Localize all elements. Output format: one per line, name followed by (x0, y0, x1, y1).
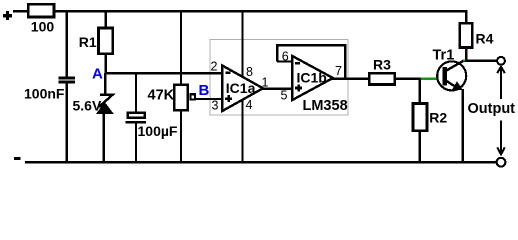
capacitor 100uF top plate (hollow) (128, 113, 145, 118)
wire R3 to junction (394, 77, 422, 79)
svg-text:47K: 47K (148, 88, 175, 104)
green wire junction to base (421, 77, 438, 79)
resistor R4 (box) (460, 23, 473, 47)
svg-text:100µF: 100µF (138, 123, 178, 139)
svg-text:Output: Output (468, 101, 516, 117)
wire + to 100 ohm resistor (13, 10, 28, 13)
resistor 100 (box) (28, 4, 54, 17)
resistor R1 (box) (99, 28, 113, 54)
zener diode anode triangle (97, 103, 113, 114)
bottom rail wire (25, 161, 497, 164)
resistor R2 bottom lead (419, 131, 421, 163)
wire IC1a output to pin 5 (262, 88, 292, 90)
svg-text:1: 1 (262, 75, 269, 89)
capacitor 100uF bottom plate (126, 121, 147, 124)
wire IC1b output to R3 (332, 77, 369, 79)
svg-text:4: 4 (246, 98, 253, 112)
transistor Tr1 circle (437, 61, 466, 90)
svg-text:Tr1: Tr1 (433, 47, 455, 63)
svg-text:IC1b: IC1b (297, 70, 327, 86)
Tr1 collector stroke (447, 60, 465, 70)
svg-text:IC1a: IC1a (226, 80, 256, 96)
svg-text:R3: R3 (373, 56, 391, 72)
collector junction green mark (463, 60, 465, 62)
IC1a minus sign (226, 72, 231, 74)
zener diode D 5.6V top lead (104, 73, 106, 96)
node - terminal (minus symbol) (14, 157, 21, 160)
node + terminal (plus symbol) (3, 11, 12, 20)
resistor R1 bottom lead (105, 54, 107, 74)
output terminal upper (circle) (497, 57, 505, 65)
svg-text:R4: R4 (476, 30, 494, 46)
svg-text:2: 2 (211, 59, 218, 73)
collector node wire to output terminal (463, 60, 498, 62)
svg-text:100: 100 (31, 18, 55, 34)
svg-text:5.6V: 5.6V (73, 97, 102, 113)
svg-text:R2: R2 (429, 110, 447, 126)
svg-text:B: B (199, 82, 210, 99)
preset VR 47K top lead from rail (180, 11, 182, 84)
op-amp IC1b triangle (292, 56, 333, 100)
output arrow down (497, 121, 505, 155)
svg-text:5: 5 (281, 89, 288, 103)
pin 4 supply wire (241, 100, 243, 163)
resistor R2 (box) (413, 104, 427, 131)
output terminal lower (circle) (497, 158, 506, 167)
IC1a plus sign (225, 95, 232, 102)
resistor R2 top lead (419, 79, 421, 104)
capacitor 100uF bottom lead (135, 124, 137, 164)
svg-text:8: 8 (246, 65, 253, 79)
IC1b plus sign (295, 85, 302, 92)
svg-text:7: 7 (335, 64, 342, 78)
pin 6 stub (277, 60, 292, 62)
svg-text:A: A (92, 65, 103, 82)
resistor R1 top lead (105, 11, 107, 28)
Tr1 emitter arrowhead (453, 81, 463, 90)
output arrow up (497, 67, 505, 99)
Tr1 emitter stroke (447, 81, 460, 89)
svg-text:3: 3 (212, 99, 219, 113)
capacitor 100nF bottom lead (66, 83, 68, 163)
preset 47K wiper tab (191, 94, 195, 99)
Tr1 base bar (443, 67, 447, 85)
capacitor C 100nF top lead (66, 11, 68, 77)
op-amp IC1a triangle (222, 66, 263, 112)
capacitor C2 100uF top lead (135, 73, 137, 113)
pin 8 supply wire (241, 11, 243, 77)
svg-text:R1: R1 (79, 34, 97, 50)
node A wire to pin 2 (105, 72, 222, 74)
resistor R4 bottom lead (465, 48, 467, 62)
IC1b feedback wire pin 7 to pin 6 (277, 45, 345, 79)
selection box (grey) around IC1 (210, 40, 348, 116)
preset 47K (box) (174, 85, 187, 111)
svg-text:6: 6 (282, 49, 289, 63)
resistor R3 (box) (369, 73, 395, 84)
capacitor 100nF plates (58, 76, 75, 83)
svg-text:LM358: LM358 (303, 98, 348, 114)
IC1b minus sign (295, 62, 300, 64)
emitter wire down (461, 89, 463, 163)
zener diode bottom lead (102, 112, 104, 163)
wire top rail (55, 11, 466, 22)
svg-text:100nF: 100nF (24, 86, 65, 102)
zener diode cathode Z bar (100, 95, 113, 107)
node B wire wiper to pin 3 (196, 98, 223, 100)
preset 47K bottom lead (180, 110, 182, 163)
